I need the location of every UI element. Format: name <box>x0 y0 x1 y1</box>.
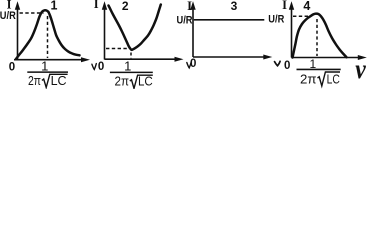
svg-text:2π: 2π <box>28 73 41 88</box>
svg-text:U/R: U/R <box>0 10 16 22</box>
svg-text:I: I <box>282 0 287 12</box>
graph 4 y-axis <box>289 1 294 57</box>
svg-text:LC: LC <box>51 73 67 88</box>
svg-text:1: 1 <box>124 58 131 73</box>
svg-text:I: I <box>187 0 192 13</box>
svg-text:2: 2 <box>122 0 129 13</box>
graph 3 constant current line <box>194 19 264 21</box>
svg-text:0: 0 <box>190 58 196 70</box>
graph 1 radical sign <box>42 74 68 87</box>
graph 2 fraction bar <box>110 71 153 73</box>
svg-text:0: 0 <box>98 61 104 73</box>
graph 1 y-axis <box>15 1 20 60</box>
svg-text:I: I <box>94 0 99 11</box>
graph 2 radical sign <box>130 75 153 88</box>
graph 4 fraction bar <box>297 68 341 70</box>
graph 1 resonance curve <box>16 10 80 59</box>
graph 3 y-axis <box>190 1 195 57</box>
svg-text:LC: LC <box>327 72 340 87</box>
svg-text:2π: 2π <box>300 72 317 87</box>
graph 1 nu axis label <box>92 64 96 70</box>
svg-text:ν: ν <box>355 54 366 84</box>
graph 1 dashed resonance frequency line <box>47 16 49 58</box>
graph 1 dashed level line <box>20 12 44 14</box>
svg-text:1: 1 <box>51 0 58 13</box>
graph 2 y-axis <box>102 1 107 59</box>
graph 4 x-axis <box>292 55 367 60</box>
svg-text:LC: LC <box>138 74 153 89</box>
svg-text:2π: 2π <box>115 74 130 89</box>
graph 2 nu axis label <box>187 62 191 68</box>
svg-text:4: 4 <box>303 0 310 13</box>
graph 1 fraction bar <box>27 71 68 73</box>
graph 4 curve <box>293 14 347 58</box>
svg-text:0: 0 <box>9 61 15 73</box>
graph 4 dashed resonance frequency line <box>316 19 318 56</box>
graph 2 dashed level line <box>106 48 128 50</box>
graph 4 dashed level line <box>293 15 311 17</box>
svg-text:U/R: U/R <box>177 15 193 27</box>
svg-text:U/R: U/R <box>268 13 284 25</box>
graph 3 x-axis <box>193 55 272 60</box>
graph 2 x-axis <box>105 57 184 62</box>
graph 2 curve (minimum at resonance) <box>109 5 161 50</box>
graph 4 radical sign <box>318 72 341 86</box>
graph 2 dashed resonance frequency line <box>130 53 132 59</box>
svg-text:0: 0 <box>284 60 290 72</box>
svg-text:3: 3 <box>231 0 238 13</box>
graph 3 nu axis label <box>275 61 281 66</box>
graph 1 x-axis <box>14 57 90 62</box>
